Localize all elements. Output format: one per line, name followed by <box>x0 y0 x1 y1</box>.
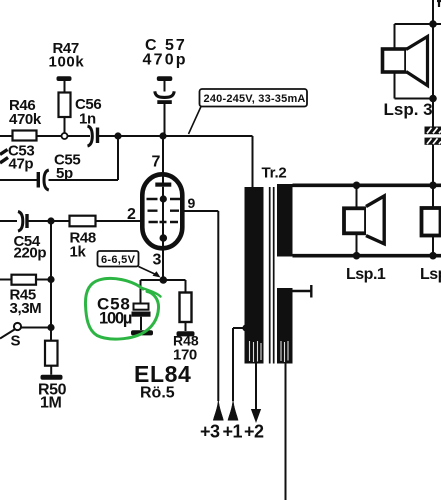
svg-text:1M: 1M <box>40 395 61 412</box>
label fragment top-right <box>437 1 441 7</box>
svg-text:Tr.2: Tr.2 <box>262 165 287 182</box>
capacitor C56 <box>88 126 100 146</box>
tube grid g3 dashes <box>147 198 181 200</box>
speaker Lsp1 <box>344 185 384 255</box>
svg-text:EL84: EL84 <box>134 361 191 387</box>
svg-text:47p: 47p <box>9 156 34 173</box>
node junction C54/R45 <box>47 217 54 224</box>
resistor R48 1k <box>70 216 96 227</box>
svg-text:+3: +3 <box>200 422 220 442</box>
capacitor C57 <box>155 76 174 134</box>
callout box 240-245V <box>189 89 308 134</box>
wire secondary tap terminal <box>293 285 312 298</box>
node Lsp3 bottom <box>429 95 437 103</box>
node junction primary tap <box>242 324 249 331</box>
node cathode junction <box>160 276 168 284</box>
wire speaker top rail <box>293 184 441 188</box>
annotation green circle around C58 <box>85 278 160 339</box>
svg-text:1k: 1k <box>70 244 87 261</box>
svg-text:7: 7 <box>152 154 161 171</box>
resistor R46 <box>13 131 37 141</box>
wire cathode left branch <box>141 280 164 304</box>
wire left column <box>50 221 52 341</box>
svg-text:Lsp. 3: Lsp. 3 <box>384 100 433 119</box>
resistor R47 <box>57 76 72 133</box>
wire cathode right branch <box>163 280 185 293</box>
svg-text:Rö.5: Rö.5 <box>140 385 175 402</box>
wire tube pin 3 <box>162 238 164 280</box>
svg-text:Lsp.1: Lsp.1 <box>346 266 386 283</box>
tube anode plate <box>155 183 171 187</box>
node Lsp2 top <box>429 182 437 190</box>
switch S <box>0 323 51 339</box>
transformer Tr2 primary winding <box>245 187 264 364</box>
wire +1 tap <box>233 328 244 401</box>
wire tube pin 7 <box>162 136 164 183</box>
transformer core <box>270 187 274 364</box>
node junction C55 branch <box>114 132 121 139</box>
speaker Lsp3 loop <box>383 0 441 184</box>
wire C55 feedback branch <box>0 136 118 180</box>
svg-text:+1: +1 <box>223 422 243 442</box>
wire main anode bus y136 <box>0 136 253 188</box>
capacitor C53 (cut at edge) <box>0 150 8 164</box>
node Lsp1 bottom <box>353 252 361 260</box>
svg-text:+2: +2 <box>244 422 264 442</box>
terminal +2 arrow down <box>252 410 261 422</box>
node junction tube pin7 / C57 <box>159 132 166 139</box>
svg-text:S: S <box>11 333 21 350</box>
svg-text:Lsp.2: Lsp.2 <box>420 266 441 283</box>
capacitor C55 <box>37 170 49 190</box>
svg-text:3,3M: 3,3M <box>10 300 42 317</box>
wire grid pin 2 <box>96 220 142 222</box>
node Lsp1 top <box>353 182 361 190</box>
wire pin 9 to +3 <box>185 211 219 401</box>
svg-text:9: 9 <box>188 195 196 211</box>
svg-text:470k: 470k <box>9 111 42 128</box>
wire speaker bottom rail <box>293 254 441 258</box>
transformer secondary lower winding <box>277 288 293 364</box>
svg-text:240-245V, 33-35mA: 240-245V, 33-35mA <box>204 93 306 105</box>
wire secondary bottom lead <box>285 364 287 500</box>
terminal +1 <box>228 399 238 420</box>
node junction switch <box>47 324 54 331</box>
wire R45 stubs <box>0 279 51 281</box>
tube grid g2 dashes <box>148 209 180 211</box>
svg-text:5p: 5p <box>56 165 73 182</box>
svg-text:2: 2 <box>127 206 136 223</box>
node open-circle junction R47/R46 <box>62 133 68 139</box>
resistor R50 <box>41 341 63 380</box>
resistor R45 <box>12 275 37 285</box>
svg-text:3: 3 <box>153 252 162 269</box>
svg-text:1n: 1n <box>79 111 96 128</box>
transformer winding texture <box>250 341 289 362</box>
terminal +3 <box>213 399 223 420</box>
svg-text:470p: 470p <box>143 52 188 69</box>
node g3 tie <box>160 195 167 202</box>
node Lsp2 bottom <box>429 252 437 260</box>
op-amp tube EL84 envelope <box>142 174 182 248</box>
connector socket hatched <box>425 127 441 145</box>
node cathode tie <box>160 234 168 242</box>
svg-text:220p: 220p <box>14 245 47 262</box>
tube cathode line <box>162 187 164 238</box>
speaker Lsp2 (cut at edge) <box>422 185 441 255</box>
svg-text:6-6,5V: 6-6,5V <box>101 254 136 266</box>
capacitor C58 electrolytic <box>131 304 153 336</box>
tube grid g1 dashes <box>149 221 179 223</box>
wire C54 to R48 <box>0 220 70 222</box>
callout box 6-6.5V <box>98 251 161 278</box>
node junction R45 <box>47 276 54 283</box>
wire +2 from primary bottom <box>255 364 257 411</box>
capacitor C54 <box>18 212 29 232</box>
node Lsp3 top <box>429 20 437 28</box>
svg-text:100µ: 100µ <box>99 310 132 328</box>
svg-text:100k: 100k <box>49 54 85 71</box>
resistor R48 170 <box>177 293 195 337</box>
transformer secondary upper winding <box>277 184 293 257</box>
